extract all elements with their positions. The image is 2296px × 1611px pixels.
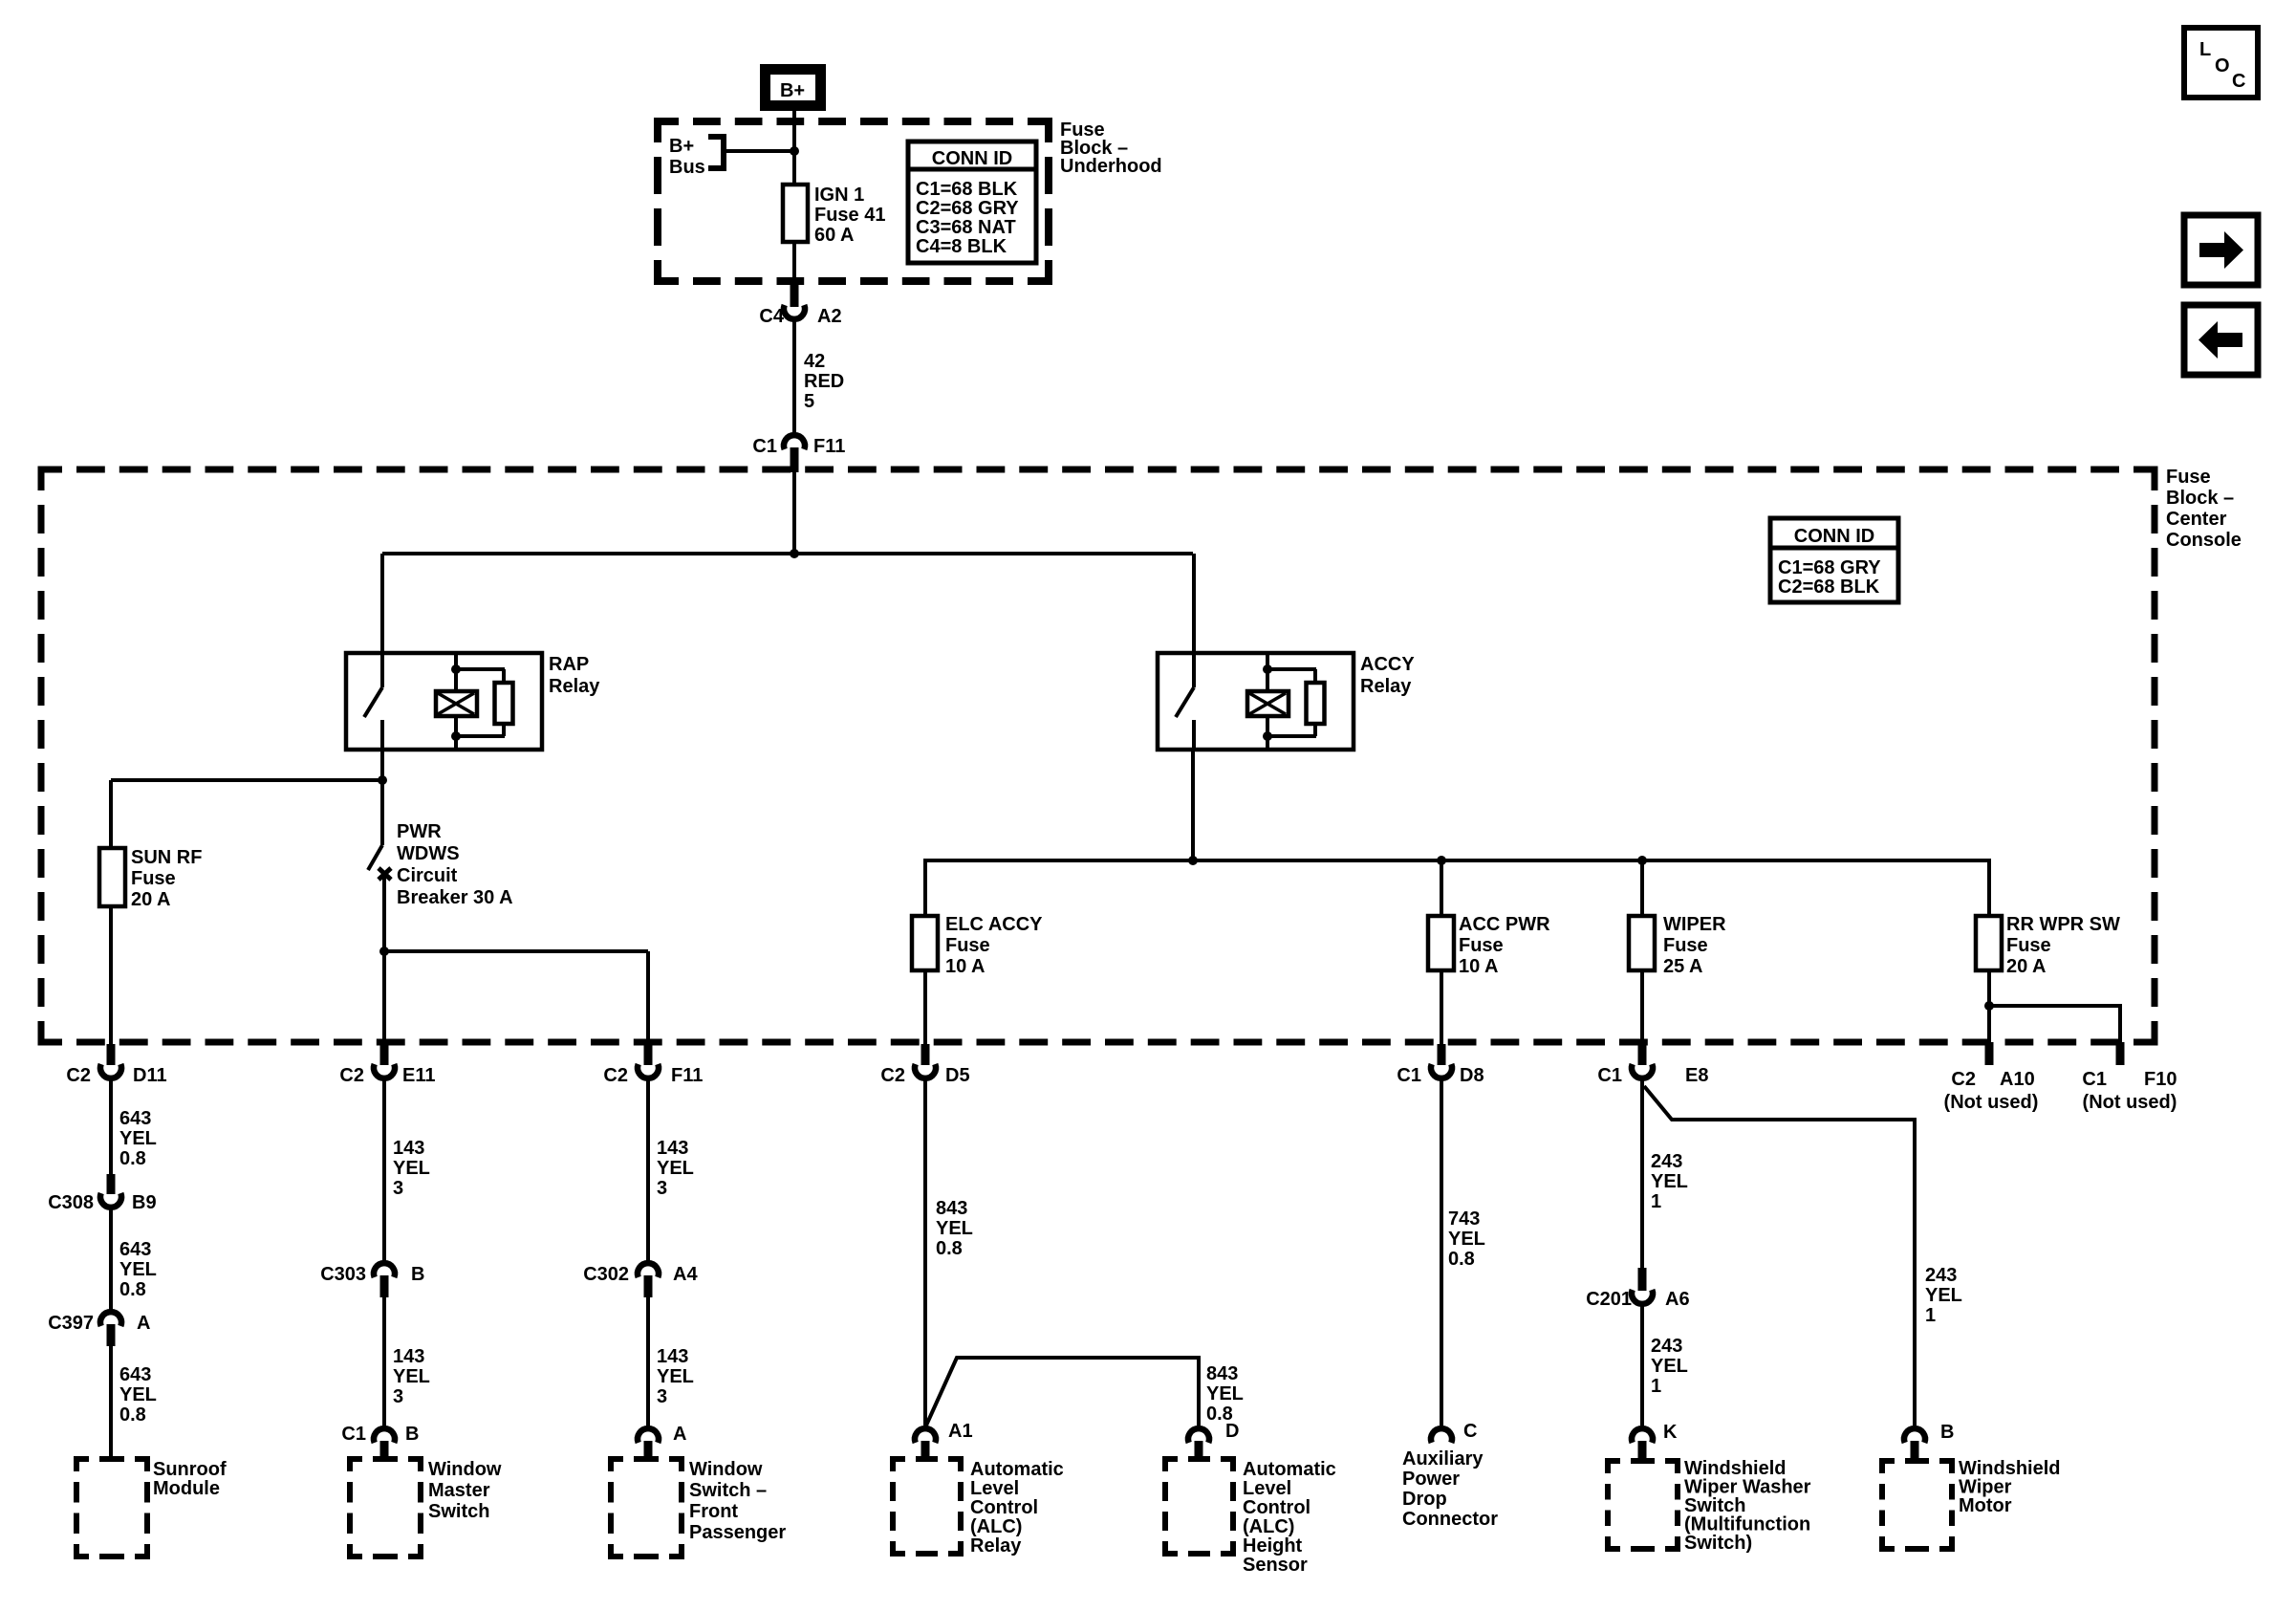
- connector C2 / D11: [66, 1044, 166, 1086]
- wire 143 YEL 3 (col3 upper): [648, 1080, 694, 1262]
- svg-text:3: 3: [393, 1178, 403, 1199]
- svg-text:Breaker 30 A: Breaker 30 A: [397, 887, 513, 908]
- svg-text:Level: Level: [970, 1478, 1019, 1499]
- fuse SUN RF 20 A: [99, 847, 202, 910]
- svg-text:A4: A4: [673, 1264, 698, 1285]
- svg-text:C: C: [2232, 71, 2245, 92]
- wire 743 YEL 0.8: [1441, 1080, 1485, 1426]
- svg-text:Relay: Relay: [970, 1535, 1022, 1557]
- svg-text:ELC ACCY: ELC ACCY: [945, 914, 1043, 935]
- svg-text:B+: B+: [669, 136, 694, 157]
- svg-text:E8: E8: [1685, 1065, 1708, 1086]
- svg-text:YEL: YEL: [393, 1366, 430, 1387]
- svg-text:C308: C308: [48, 1192, 94, 1213]
- wire 643 YEL 0.8 (middle): [111, 1209, 157, 1310]
- connector B (wiper motor): [1904, 1422, 1954, 1460]
- svg-text:C201: C201: [1586, 1289, 1632, 1310]
- svg-text:YEL: YEL: [1448, 1229, 1485, 1250]
- svg-text:SUN RF: SUN RF: [131, 847, 202, 868]
- svg-text:Window: Window: [428, 1459, 502, 1480]
- svg-text:Fuse: Fuse: [2006, 935, 2051, 956]
- svg-text:B: B: [405, 1424, 419, 1445]
- svg-text:ACC PWR: ACC PWR: [1459, 914, 1550, 935]
- connector C201 / A6: [1586, 1268, 1689, 1310]
- svg-text:(ALC): (ALC): [1243, 1516, 1294, 1537]
- svg-text:RED: RED: [804, 371, 844, 392]
- svg-text:C2: C2: [66, 1065, 91, 1086]
- wire ACCY relay output to accessory bus: [1188, 750, 1198, 865]
- svg-text:843: 843: [936, 1198, 967, 1219]
- svg-text:YEL: YEL: [1651, 1356, 1688, 1377]
- wire 243 YEL 1 (E8 to C201): [1642, 1080, 1688, 1268]
- svg-text:A6: A6: [1665, 1289, 1690, 1310]
- svg-text:643: 643: [119, 1239, 151, 1260]
- svg-text:C1: C1: [341, 1424, 366, 1445]
- accessory voltage bus: [925, 856, 1989, 915]
- fuse ELC ACCY 10 A: [912, 914, 1043, 977]
- wire ACC PWR fuse to C1 D8: [1440, 970, 1443, 1044]
- svg-text:143: 143: [657, 1138, 688, 1159]
- svg-text:Relay: Relay: [549, 676, 600, 697]
- svg-text:YEL: YEL: [119, 1384, 157, 1405]
- svg-text:C302: C302: [583, 1264, 629, 1285]
- svg-text:0.8: 0.8: [936, 1238, 963, 1259]
- svg-text:A2: A2: [817, 306, 842, 327]
- wire 243 YEL 1 (C201 to K): [1642, 1306, 1688, 1426]
- svg-text:C2: C2: [603, 1065, 628, 1086]
- component Window Switch - Front Passenger: [611, 1459, 786, 1557]
- svg-text:25 A: 25 A: [1663, 956, 1703, 977]
- connector C2 / A10 (Not used): [1944, 1042, 2039, 1113]
- wire B+ bus tap: [724, 149, 794, 153]
- svg-text:Fuse: Fuse: [1663, 935, 1708, 956]
- label Fuse Block - Center Console: [2166, 467, 2242, 551]
- svg-text:643: 643: [119, 1108, 151, 1129]
- wire breaker output junction: [379, 947, 648, 956]
- svg-text:A: A: [137, 1313, 150, 1334]
- svg-text:YEL: YEL: [657, 1158, 694, 1179]
- component Auxiliary Power Drop Connector: [1402, 1448, 1498, 1530]
- component Sunroof Module: [76, 1459, 227, 1557]
- wire WIPER fuse to C1 E8: [1640, 970, 1644, 1044]
- svg-text:YEL: YEL: [1206, 1383, 1244, 1404]
- fuse ACC PWR 10 A: [1428, 914, 1550, 977]
- wire feed into center console block: [790, 472, 799, 558]
- svg-text:A: A: [673, 1424, 686, 1445]
- connector D (ALC height sensor): [1188, 1421, 1239, 1459]
- svg-text:C4=8 BLK: C4=8 BLK: [916, 236, 1007, 257]
- connector C4 / A2: [759, 285, 841, 327]
- fuse block underhood dashed enclosure: [658, 121, 1049, 281]
- svg-text:O: O: [2215, 55, 2230, 76]
- fuse WIPER 25 A: [1629, 914, 1726, 977]
- wire to SUN RF fuse: [109, 780, 113, 848]
- svg-text:Fuse 41: Fuse 41: [814, 205, 885, 226]
- connector C308 / B9: [48, 1174, 156, 1213]
- svg-text:WIPER: WIPER: [1663, 914, 1726, 935]
- svg-text:L: L: [2199, 39, 2211, 60]
- svg-text:C3=68 NAT: C3=68 NAT: [916, 217, 1016, 238]
- wire 42 RED 5: [794, 321, 844, 433]
- svg-text:Block –: Block –: [2166, 488, 2234, 509]
- svg-text:WDWS: WDWS: [397, 843, 460, 864]
- svg-text:C2: C2: [1951, 1069, 1976, 1090]
- svg-text:243: 243: [1925, 1265, 1957, 1286]
- svg-text:Drop: Drop: [1402, 1489, 1447, 1510]
- back arrow box: [2184, 305, 2258, 375]
- relay ACCY: [1158, 554, 1415, 750]
- svg-text:Motor: Motor: [1959, 1495, 2012, 1516]
- wire 143 YEL 3 (col2 lower): [384, 1297, 430, 1426]
- svg-text:3: 3: [393, 1386, 403, 1407]
- svg-text:(Not used): (Not used): [2083, 1092, 2177, 1113]
- svg-text:0.8: 0.8: [119, 1404, 146, 1426]
- svg-text:0.8: 0.8: [119, 1279, 146, 1300]
- svg-text:C1: C1: [2082, 1069, 2107, 1090]
- svg-text:C1: C1: [1397, 1065, 1421, 1086]
- svg-text:Passenger: Passenger: [689, 1522, 786, 1543]
- svg-text:Control: Control: [1243, 1497, 1310, 1518]
- svg-text:CONN ID: CONN ID: [1794, 526, 1874, 547]
- svg-text:E11: E11: [402, 1065, 435, 1086]
- connector C1 / E8: [1597, 1044, 1708, 1086]
- svg-text:IGN 1: IGN 1: [814, 185, 864, 206]
- svg-text:ACCY: ACCY: [1360, 654, 1415, 675]
- svg-text:Window: Window: [689, 1459, 763, 1480]
- svg-text:(ALC): (ALC): [970, 1516, 1022, 1537]
- svg-text:143: 143: [393, 1138, 424, 1159]
- wire 143 YEL 3 (col3 lower): [648, 1297, 694, 1426]
- CONN ID table (fuse block underhood): [908, 142, 1036, 263]
- connector C2 / E11: [339, 1044, 435, 1086]
- svg-text:42: 42: [804, 351, 825, 372]
- component Windshield Wiper Washer Switch (Multifunction Switch): [1608, 1458, 1811, 1554]
- svg-text:A1: A1: [948, 1421, 973, 1442]
- svg-text:B: B: [1940, 1422, 1954, 1443]
- svg-text:YEL: YEL: [119, 1128, 157, 1149]
- wire 243 YEL 1 (E8 branch to wiper motor): [1644, 1086, 1962, 1426]
- svg-text:Relay: Relay: [1360, 676, 1412, 697]
- svg-text:F11: F11: [813, 436, 845, 457]
- LOC legend box: [2184, 28, 2258, 98]
- svg-text:(Not used): (Not used): [1944, 1092, 2039, 1113]
- svg-text:C1: C1: [752, 436, 777, 457]
- connector A (window switch front passenger): [638, 1424, 686, 1458]
- svg-text:C4: C4: [759, 306, 784, 327]
- node B+ Bus: [669, 136, 724, 178]
- svg-text:Sensor: Sensor: [1243, 1555, 1308, 1576]
- svg-text:243: 243: [1651, 1151, 1682, 1172]
- connector C1 / B: [341, 1424, 419, 1458]
- svg-text:K: K: [1663, 1422, 1678, 1443]
- svg-text:10 A: 10 A: [1459, 956, 1499, 977]
- svg-text:Fuse: Fuse: [2166, 467, 2211, 488]
- svg-text:F11: F11: [671, 1065, 703, 1086]
- svg-text:Master: Master: [428, 1480, 490, 1501]
- svg-text:1: 1: [1651, 1191, 1661, 1212]
- svg-text:C1: C1: [1597, 1065, 1622, 1086]
- connector C397 / A: [48, 1312, 150, 1346]
- svg-text:3: 3: [657, 1386, 667, 1407]
- svg-text:Connector: Connector: [1402, 1509, 1498, 1530]
- svg-text:CONN ID: CONN ID: [932, 148, 1012, 169]
- svg-text:1: 1: [1651, 1376, 1661, 1397]
- svg-text:YEL: YEL: [119, 1259, 157, 1280]
- svg-text:YEL: YEL: [1651, 1171, 1688, 1192]
- connector C302 / A4: [583, 1263, 698, 1297]
- svg-text:Sunroof: Sunroof: [153, 1459, 227, 1480]
- svg-text:5: 5: [804, 391, 814, 412]
- svg-text:RAP: RAP: [549, 654, 589, 675]
- wire from B+ into fuse block underhood: [790, 111, 799, 185]
- wire ELC ACCY fuse to C2 D5: [923, 970, 927, 1044]
- svg-text:20 A: 20 A: [131, 889, 171, 910]
- svg-text:143: 143: [657, 1346, 688, 1367]
- connector K (wiper washer switch): [1632, 1422, 1678, 1460]
- svg-text:10 A: 10 A: [945, 956, 986, 977]
- component Automatic Level Control (ALC) Relay: [893, 1459, 1064, 1557]
- svg-text:D11: D11: [133, 1065, 167, 1086]
- svg-text:C2: C2: [880, 1065, 905, 1086]
- svg-text:743: 743: [1448, 1208, 1480, 1230]
- component Windshield Wiper Motor: [1882, 1458, 2060, 1549]
- wire 143 YEL 3 (col2 upper): [384, 1080, 430, 1262]
- svg-text:Auxiliary: Auxiliary: [1402, 1448, 1484, 1469]
- svg-text:Level: Level: [1243, 1478, 1291, 1499]
- B+ power feed symbol: [760, 64, 826, 111]
- svg-text:143: 143: [393, 1346, 424, 1367]
- label Fuse Block - Underhood: [1060, 120, 1162, 177]
- wire RR WPR SW fuse split to not-used pins: [1984, 970, 2120, 1042]
- wire bus drop to WIPER fuse: [1640, 860, 1644, 916]
- svg-text:243: 243: [1651, 1336, 1682, 1357]
- svg-text:Front: Front: [689, 1501, 738, 1522]
- svg-text:1: 1: [1925, 1305, 1936, 1326]
- connector C2 / F11 (lower): [603, 1044, 703, 1086]
- svg-text:C1=68 BLK: C1=68 BLK: [916, 179, 1018, 200]
- svg-text:PWR: PWR: [397, 821, 442, 842]
- forward arrow box: [2184, 215, 2258, 285]
- svg-text:Fuse: Fuse: [1459, 935, 1504, 956]
- connector C2 / D5: [880, 1044, 969, 1086]
- relay RAP: [346, 554, 600, 750]
- fuse IGN 1 Fuse 41 60 A: [783, 185, 885, 246]
- svg-text:C397: C397: [48, 1313, 94, 1334]
- svg-text:20 A: 20 A: [2006, 956, 2047, 977]
- svg-text:YEL: YEL: [936, 1218, 973, 1239]
- svg-text:D8: D8: [1460, 1065, 1484, 1086]
- svg-text:C: C: [1463, 1421, 1477, 1442]
- svg-text:Module: Module: [153, 1478, 220, 1499]
- svg-text:643: 643: [119, 1364, 151, 1385]
- svg-text:Switch): Switch): [1684, 1533, 1752, 1554]
- connector C1 / D8: [1397, 1044, 1484, 1086]
- svg-text:60 A: 60 A: [814, 225, 855, 246]
- wire to C2 E11: [382, 951, 386, 1044]
- circuit breaker PWR WDWS 30 A: [368, 821, 513, 951]
- svg-text:0.8: 0.8: [1448, 1249, 1475, 1270]
- svg-text:B9: B9: [132, 1192, 157, 1213]
- svg-text:Center: Center: [2166, 509, 2227, 530]
- svg-text:843: 843: [1206, 1363, 1238, 1384]
- CONN ID table (fuse block center console): [1770, 518, 1898, 602]
- wire bus drop to ACC PWR fuse: [1440, 860, 1443, 916]
- svg-text:C2=68 BLK: C2=68 BLK: [1778, 577, 1880, 598]
- svg-text:D5: D5: [945, 1065, 970, 1086]
- svg-text:Fuse: Fuse: [131, 868, 176, 889]
- svg-text:Height: Height: [1243, 1535, 1303, 1557]
- svg-text:Automatic: Automatic: [970, 1459, 1064, 1480]
- svg-text:A10: A10: [2000, 1069, 2035, 1090]
- fuse block center console dashed enclosure: [41, 469, 2155, 1042]
- svg-text:Power: Power: [1402, 1469, 1460, 1490]
- svg-text:C1=68 GRY: C1=68 GRY: [1778, 557, 1881, 578]
- svg-text:D: D: [1225, 1421, 1239, 1442]
- wire SUN RF fuse to C2 D11: [109, 906, 113, 1044]
- svg-text:3: 3: [657, 1178, 667, 1199]
- wire RAP relay output junction: [111, 750, 387, 845]
- wire 643 YEL 0.8 (lower): [111, 1346, 157, 1459]
- svg-text:Switch: Switch: [428, 1501, 489, 1522]
- wire to C2 F11: [646, 951, 650, 1044]
- svg-text:B+: B+: [780, 80, 805, 101]
- svg-text:Bus: Bus: [669, 157, 705, 178]
- component Automatic Level Control (ALC) Height Sensor: [1165, 1459, 1336, 1576]
- svg-text:C2: C2: [339, 1065, 364, 1086]
- connector C1 / F10 (Not used): [2082, 1042, 2177, 1113]
- svg-text:Console: Console: [2166, 530, 2242, 551]
- svg-text:0.8: 0.8: [119, 1148, 146, 1169]
- svg-text:B: B: [411, 1264, 424, 1285]
- fuse RR WPR SW 20 A: [1976, 914, 2120, 977]
- connector C (auxiliary power drop): [1431, 1421, 1477, 1443]
- svg-text:Circuit: Circuit: [397, 865, 458, 886]
- component Window Master Switch: [350, 1459, 502, 1557]
- svg-text:F10: F10: [2144, 1069, 2177, 1090]
- svg-text:C2=68 GRY: C2=68 GRY: [916, 198, 1019, 219]
- wire 843 YEL 0.8 (to ALC relay): [925, 1080, 973, 1426]
- wire fuse IGN1 to connector C4: [792, 242, 796, 287]
- wire 843 YEL 0.8 branch to ALC height sensor: [925, 1358, 1244, 1427]
- connector A1 (ALC relay): [915, 1421, 973, 1459]
- svg-text:Automatic: Automatic: [1243, 1459, 1336, 1480]
- svg-text:YEL: YEL: [657, 1366, 694, 1387]
- connector C303 / B: [320, 1263, 424, 1297]
- connector C1 / F11: [752, 435, 845, 472]
- svg-text:Switch –: Switch –: [689, 1480, 767, 1501]
- svg-text:YEL: YEL: [393, 1158, 430, 1179]
- svg-text:Fuse: Fuse: [945, 935, 990, 956]
- svg-text:RR WPR SW: RR WPR SW: [2006, 914, 2120, 935]
- svg-text:YEL: YEL: [1925, 1285, 1962, 1306]
- wire distribution bus to relays: [382, 552, 1193, 555]
- svg-text:Control: Control: [970, 1497, 1038, 1518]
- wire 643 YEL 0.8 (upper): [111, 1080, 157, 1174]
- svg-text:Underhood: Underhood: [1060, 156, 1162, 177]
- svg-text:C303: C303: [320, 1264, 366, 1285]
